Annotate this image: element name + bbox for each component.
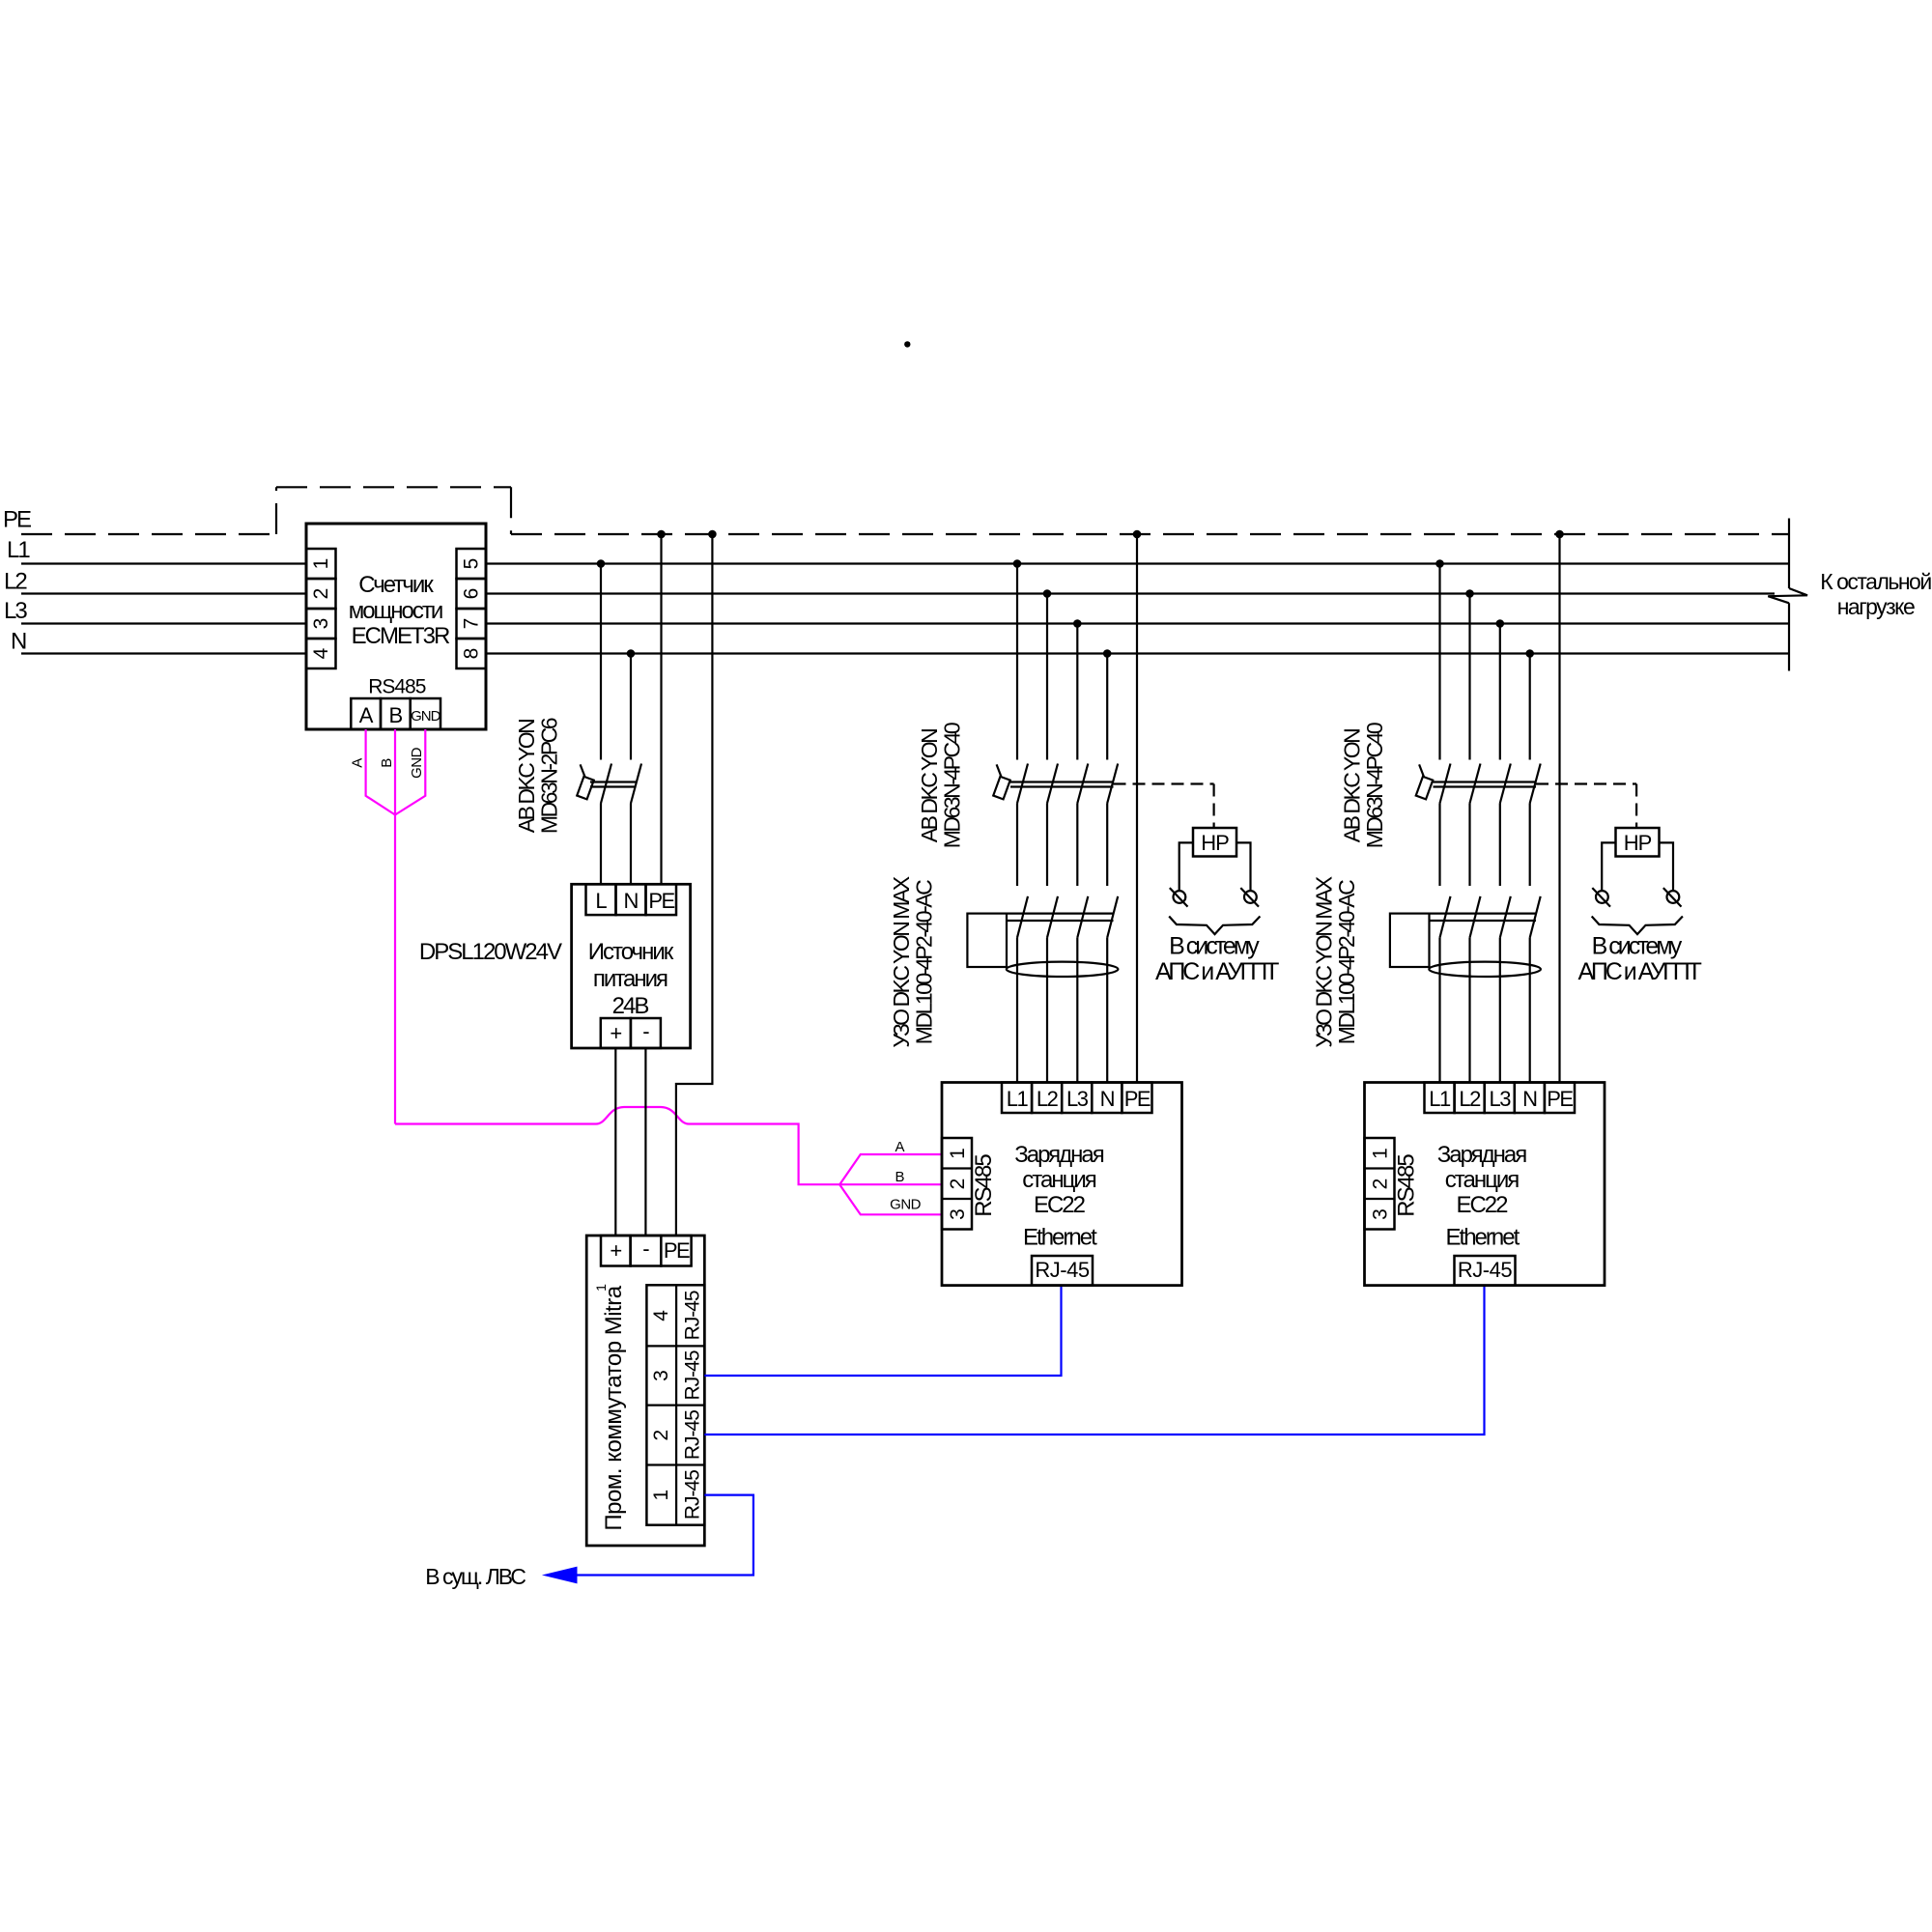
svg-text:мощности: мощности [349,598,442,624]
svg-text:Источник: Источник [588,939,674,965]
svg-text:B: B [379,758,395,768]
svg-text:L2: L2 [1037,1087,1059,1111]
svg-text:Ethernet: Ethernet [1023,1225,1097,1251]
svg-text:нагрузке: нагрузке [1837,594,1915,619]
junction dot N drop station 1 [1103,649,1112,658]
wire PE to station 2 [1558,534,1560,1083]
RCD УЗО DKC YON MAX MDL100-4P2-40-AC station 1 (4-pole) [1017,896,1028,938]
PSU terminal PE [646,884,677,915]
wire L3 bus [21,622,306,624]
station 2 RJ-45 port [1455,1256,1516,1286]
wire RS485 GND from meter (pink) [395,729,425,815]
wire PE bus (dashed) [21,533,276,535]
station 2 terminal L1 [1425,1083,1455,1114]
wire RS485 A from meter (pink) [366,729,395,815]
wire N to breaker station 1 [1106,654,1108,760]
svg-text:L1: L1 [1429,1087,1451,1111]
svg-text:8: 8 [461,648,483,660]
svg-text:станция: станция [1445,1167,1519,1193]
wire breaker to RCD poles station 2 [1438,804,1440,887]
switch terminal + [601,1236,631,1266]
station 1 RS485 terminal block [942,1138,972,1230]
PSU terminal L [586,884,616,915]
junction dot PE to PSU [657,530,666,539]
svg-text:питания: питания [593,966,668,992]
meter terminal 8 [457,639,487,668]
meter terminal 3 [306,609,336,639]
PSU terminal + [601,1018,631,1048]
charging station Зарядная станция EC22 #2 [1365,1083,1605,1286]
ethernet wire switch port 1 to LAN (blue) [577,1495,753,1576]
station 2 terminal L3 [1485,1083,1515,1114]
svg-text:3: 3 [650,1370,672,1381]
svg-text:RJ-45: RJ-45 [682,1470,704,1520]
wire L1 to breaker QF1 [600,564,602,760]
svg-text:1: 1 [593,1284,609,1292]
junction dot L1 to PSU breaker [597,559,606,568]
svg-text:АПС и АУГПТ: АПС и АУГПТ [1577,958,1701,985]
wire N to breaker station 2 [1529,654,1531,760]
wire N to breaker QF1 [630,654,632,760]
brace station 1 [1169,917,1260,935]
power supply G1 Источник питания 24В [572,884,691,1048]
meter terminal 2 [306,579,336,609]
svg-text:L1: L1 [7,537,30,563]
PSU terminal N [616,884,646,915]
RCD УЗО DKC YON MAX MDL100-4P2-40-AC station 2 (4-pole) [1440,896,1451,938]
svg-text:L2: L2 [1459,1087,1481,1111]
svg-text:2: 2 [310,588,332,600]
wire RCD to station terminals station 2 [1438,938,1440,1083]
HP left contact wire station 1 [1179,842,1193,891]
meter terminal B [381,698,411,729]
svg-text:7: 7 [461,618,483,630]
brace station 2 [1592,917,1683,935]
meter terminal A [351,698,381,729]
wire L2 to breaker station 2 [1468,594,1470,760]
wire PSU + to switch [614,1048,616,1236]
svg-text:24В: 24В [612,993,649,1019]
PSU terminal - [631,1018,661,1048]
svg-text:L3: L3 [4,598,27,624]
station 2 terminal L2 [1455,1083,1485,1114]
svg-text:Ethernet: Ethernet [1446,1225,1520,1251]
svg-text:5: 5 [461,558,483,570]
ethernet wire station 1 to switch port 3 (blue) [704,1286,1061,1376]
junction dot L1 drop station 1 [1013,559,1022,568]
meter terminal 1 [306,549,336,579]
svg-text:A: A [359,703,374,727]
station 1 RJ-45 port [1032,1256,1093,1286]
junction dot N to PSU breaker [627,649,636,658]
svg-text:L3: L3 [1489,1087,1511,1111]
wire L1 bus [21,562,306,564]
svg-text:1: 1 [1370,1148,1392,1159]
junction dot L3 drop station 1 [1073,619,1082,628]
detachable contact left station 2 [1596,891,1608,903]
svg-text:В сущ. ЛВС: В сущ. ЛВС [425,1564,526,1589]
svg-text:A: A [895,1139,904,1155]
svg-text:B: B [895,1169,904,1185]
svg-text:A: A [350,758,366,768]
svg-text:2: 2 [650,1430,672,1441]
switch RJ-45 port block [646,1285,704,1524]
svg-text:НР: НР [1624,831,1652,855]
svg-text:Зарядная: Зарядная [1437,1142,1527,1168]
svg-text:В систему: В систему [1592,932,1683,959]
svg-text:-: - [642,1019,649,1043]
release coil HP station 1 [1193,828,1236,857]
svg-text:GND: GND [411,708,441,724]
detachable contact right station 2 [1667,891,1680,903]
auxiliary contact dashed link to HP station 1 [1114,782,1214,784]
station 1 terminal L2 [1032,1083,1062,1114]
stray dot [904,341,910,347]
switch terminal PE [661,1236,691,1266]
circuit breaker АВ DKC YON MD63N-4PC40 station 2 (4-pole) [1416,777,1434,799]
svg-text:Пром. коммутатор Mitra: Пром. коммутатор Mitra [601,1285,627,1530]
circuit breaker АВ DKC YON MD63N-4PC40 station 1 (4-pole) [993,777,1010,799]
svg-text:2: 2 [1370,1179,1392,1190]
svg-text:RS485: RS485 [368,676,426,698]
svg-text:ECMET3R: ECMET3R [352,623,450,649]
svg-text:MDL100-4P2-40-AC: MDL100-4P2-40-AC [912,880,937,1044]
meter terminal GND [411,698,440,729]
station 1 terminal N [1092,1083,1122,1114]
svg-text:К остальной: К остальной [1820,569,1931,594]
wire RS485 GND to station 1 (pink) [839,1184,942,1214]
svg-text:MD63N-2PC6: MD63N-2PC6 [537,718,562,834]
wire breaker to RCD poles station 1 [1016,804,1018,887]
wire PE to PSU [660,534,662,884]
wire RCD to station terminals station 1 [1016,938,1018,1083]
svg-text:АВ DKC YON: АВ DKC YON [514,720,539,833]
junction dot PE to switch [708,530,717,539]
wire RS485 trunk (pink) with hop over DC wires [395,1107,839,1184]
svg-text:1: 1 [310,558,332,570]
svg-text:MD63N-4PC40: MD63N-4PC40 [1362,723,1387,848]
junction dot N drop station 2 [1525,649,1534,658]
svg-text:B: B [388,703,402,727]
svg-text:L: L [595,889,607,913]
svg-text:+: + [610,1238,621,1263]
junction dot PE drop station 2 [1555,530,1564,539]
junction dot L3 drop station 2 [1496,619,1505,628]
switch terminal - [631,1236,662,1266]
svg-text:4: 4 [310,647,332,659]
detachable contact left station 1 [1174,891,1186,903]
wire L3 to breaker station 2 [1499,624,1501,760]
svg-text:АПС и АУГПТ: АПС и АУГПТ [1155,958,1279,985]
svg-text:RJ-45: RJ-45 [682,1350,704,1400]
svg-text:L3: L3 [1066,1087,1089,1111]
svg-text:GND: GND [890,1197,922,1213]
svg-text:RS485: RS485 [971,1154,997,1217]
svg-text:N: N [1100,1087,1115,1111]
svg-text:MD63N-4PC40: MD63N-4PC40 [940,723,965,848]
svg-text:PE: PE [1124,1087,1151,1111]
wire breaker QF1 L pole to PSU [600,804,602,885]
station 2 terminal PE [1545,1083,1575,1114]
HP left contact wire station 2 [1602,842,1615,891]
svg-text:N: N [624,889,639,913]
svg-text:RS485: RS485 [1394,1154,1420,1217]
wire PSU - to switch [644,1048,646,1236]
svg-text:1: 1 [947,1148,969,1159]
wire L3 to breaker station 1 [1076,624,1078,760]
svg-text:L1: L1 [1007,1087,1029,1111]
wire PE to switch [676,534,713,1236]
ethernet wire station 2 to switch port 2 (blue) [704,1286,1484,1435]
svg-text:3: 3 [1370,1208,1392,1220]
svg-text:УЗО DKC YON MAX: УЗО DKC YON MAX [889,876,914,1047]
wire PE to station 1 [1136,534,1138,1083]
junction dot L1 drop station 2 [1435,559,1444,568]
svg-text:АВ DKC YON: АВ DKC YON [917,729,942,842]
svg-text:3: 3 [947,1208,969,1220]
svg-text:Счетчик: Счетчик [358,572,434,598]
bus break symbol [1788,519,1790,589]
circuit breaker QF1 АВ DKC YON MD63N-2PC6 (2-pole) [577,777,594,799]
wire breaker QF1 N pole to PSU [630,804,632,885]
wire L2 bus [21,592,306,594]
wire PE bypass over meter (dashed) [275,487,277,534]
svg-text:PE: PE [648,889,674,913]
svg-text:Зарядная: Зарядная [1014,1142,1104,1168]
svg-text:RJ-45: RJ-45 [682,1291,704,1340]
release coil HP station 2 [1616,828,1660,857]
svg-text:3: 3 [310,618,332,630]
svg-text:станция: станция [1022,1167,1095,1193]
svg-text:RJ-45: RJ-45 [682,1410,704,1460]
power meter Счетчик мощности ECMET3R [306,524,486,729]
HP right contact wire station 1 [1236,842,1251,891]
svg-text:N: N [1522,1087,1537,1111]
wire RS485 B to station 1 (pink) [839,1183,942,1185]
svg-text:АВ DKC YON: АВ DKC YON [1340,729,1365,842]
svg-text:RJ-45: RJ-45 [1458,1258,1512,1282]
svg-text:PE: PE [1547,1087,1573,1111]
wire L2 to breaker station 1 [1046,594,1048,760]
svg-text:4: 4 [650,1310,672,1321]
svg-text:EC22: EC22 [1456,1192,1508,1218]
junction dot PE drop station 1 [1133,530,1142,539]
charging station Зарядная станция EC22 #1 [942,1083,1182,1286]
svg-text:-: - [642,1236,649,1261]
meter terminal 6 [457,579,487,609]
svg-text:PE: PE [3,507,31,533]
svg-text:GND: GND [409,747,425,779]
HP right contact wire station 2 [1660,842,1674,891]
svg-text:НР: НР [1201,831,1229,855]
svg-text:RJ-45: RJ-45 [1035,1258,1089,1282]
svg-text:MDL100-4P2-40-AC: MDL100-4P2-40-AC [1334,880,1359,1044]
svg-text:+: + [610,1021,621,1045]
svg-text:N: N [11,629,26,655]
station 1 terminal L3 [1062,1083,1092,1114]
svg-text:L2: L2 [4,569,27,595]
svg-text:УЗО DKC YON MAX: УЗО DKC YON MAX [1312,876,1337,1047]
detachable contact right station 1 [1244,891,1257,903]
svg-text:PE: PE [664,1238,690,1263]
station 1 terminal L1 [1002,1083,1032,1114]
wire RS485 B from meter (pink) [394,729,396,1124]
auxiliary contact dashed link to HP station 2 [1536,782,1636,784]
arrowhead to LAN (blue) [542,1567,578,1584]
station 1 terminal PE [1122,1083,1151,1114]
junction dot L2 drop station 2 [1465,589,1474,598]
wire L1 to breaker station 2 [1438,564,1440,760]
svg-text:В систему: В систему [1169,932,1260,959]
svg-text:2: 2 [947,1179,969,1190]
svg-text:DPSL120W24V: DPSL120W24V [419,939,562,965]
wire L1 to breaker station 1 [1016,564,1018,760]
wire RS485 A to station 1 (pink) [839,1154,942,1184]
ethernet switch Пром. коммутатор Mitra [586,1236,704,1546]
svg-text:6: 6 [461,588,483,600]
meter terminal 4 [306,639,336,668]
station 2 terminal N [1515,1083,1545,1114]
wire N bus [21,652,306,654]
station 2 RS485 terminal block [1365,1138,1395,1230]
svg-text:1: 1 [650,1490,672,1501]
svg-text:EC22: EC22 [1034,1192,1086,1218]
meter terminal 5 [457,549,487,579]
meter terminal 7 [457,609,487,639]
junction dot L2 drop station 1 [1043,589,1052,598]
